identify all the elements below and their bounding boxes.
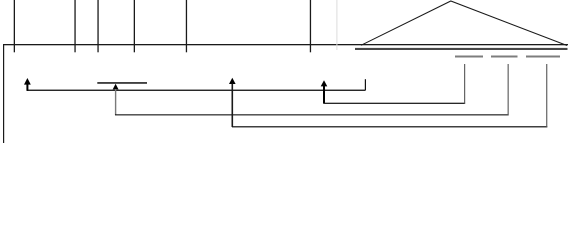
wire: rail to dash D3 (vertical v3)	[546, 64, 547, 127]
triangle (tree) sides	[361, 1, 567, 46]
triangle base thick bar	[355, 48, 568, 50]
node tick T4	[134, 0, 135, 52]
wire: rail to dash D2 (vertical v2)	[508, 64, 509, 115]
dash D2	[491, 56, 518, 58]
wire: rail to dash D1 (horizontal)	[324, 103, 466, 104]
node tick T1	[14, 0, 15, 52]
wire: main baseline	[3, 44, 568, 45]
node tick T5	[186, 0, 187, 52]
arrow A3	[321, 80, 328, 103]
wire: rail to dash D3 (horizontal)	[232, 126, 547, 127]
wire: rail to dash D2 (horizontal)	[115, 114, 509, 115]
node tick T7 (faint)	[336, 0, 337, 50]
arrow A2	[113, 84, 119, 115]
arrow A1	[24, 78, 31, 91]
wire: rail A (top pointer rail)	[27, 90, 366, 91]
wire: rail A end upturn	[365, 79, 366, 90]
node tick T6	[310, 0, 311, 52]
wire: overline B	[97, 82, 147, 84]
node tick T2	[74, 0, 75, 52]
arrow A4	[229, 78, 236, 127]
dash D3	[526, 56, 560, 58]
wire: rail to dash D1 (vertical v1)	[464, 64, 465, 104]
wire: left vertical border	[3, 44, 4, 143]
dash D1	[455, 56, 483, 58]
node tick T3	[97, 0, 98, 52]
